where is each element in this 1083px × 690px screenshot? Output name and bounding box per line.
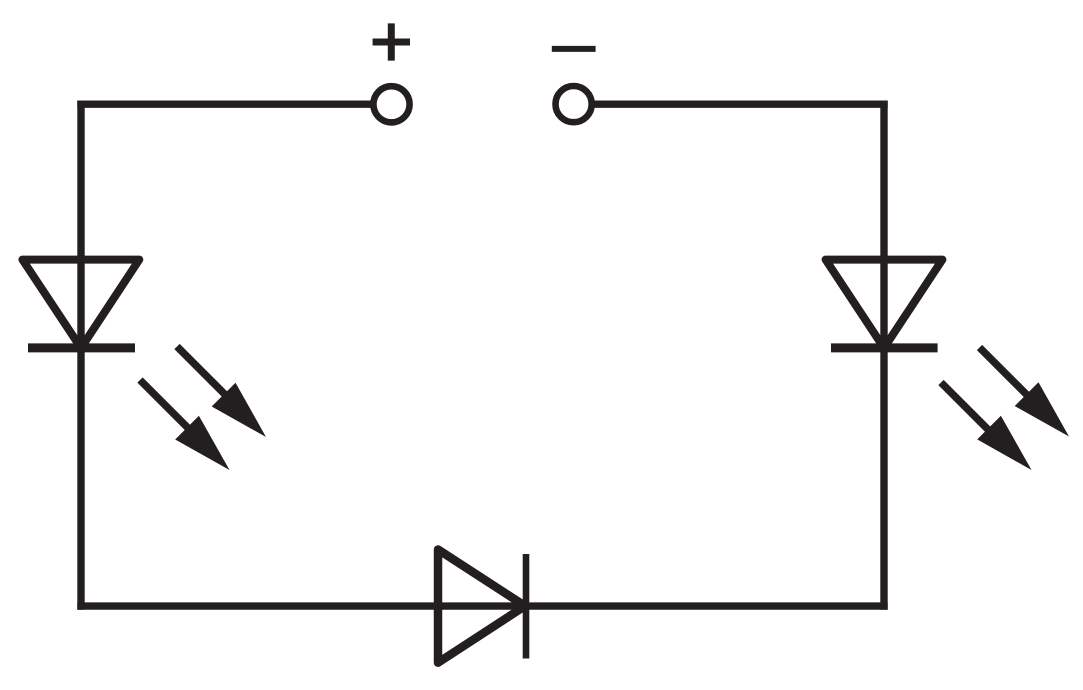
wire (top, from - terminal to top-right corner) bbox=[594, 100, 888, 107]
LED D2 emission arrow (lower) bbox=[941, 383, 1032, 471]
LED D1 (left, cathode down) bbox=[22, 260, 139, 348]
label + bbox=[373, 23, 410, 60]
terminal - (open circle) bbox=[556, 86, 592, 122]
wire (right vertical, through LED D2) bbox=[880, 101, 887, 610]
diode D3 (bottom, anode left) bbox=[438, 550, 526, 663]
LED D1 emission arrow (lower) bbox=[140, 380, 230, 470]
wire (top, from + terminal to top-left corner) bbox=[77, 100, 372, 107]
wire (bottom, through diode D3) bbox=[77, 602, 887, 609]
label - bbox=[552, 46, 596, 52]
wire (left vertical, through LED D1) bbox=[77, 101, 84, 610]
LED D1 emission arrow (upper) bbox=[177, 347, 266, 438]
LED D2 (right, cathode down) bbox=[826, 260, 943, 348]
terminal + (open circle) bbox=[373, 86, 409, 122]
LED D2 emission arrow (upper) bbox=[980, 348, 1070, 437]
